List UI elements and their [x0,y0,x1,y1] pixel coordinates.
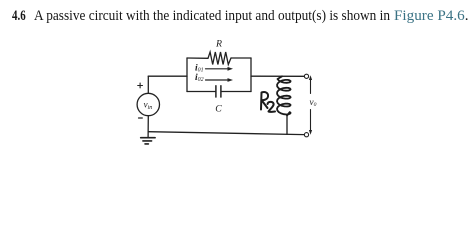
wire: top branch left lead [187,57,208,59]
wire: RC block right edge [250,58,252,92]
svg-text:vin: vin [144,99,153,111]
wire: output rail from RC block to top terminal [251,75,304,77]
voltage source Vin circle [137,93,159,115]
resistor R zigzag [208,52,231,65]
arrow i02 [206,79,230,81]
wire: R2 bottom lead [286,116,288,135]
v0 annotation arrow down [310,110,312,133]
svg-text:i02: i02 [195,73,204,83]
wire: bottom branch left lead [187,91,216,93]
node: bottom output terminal (open circle) [304,133,308,137]
wire: source bottom lead down to bottom rail and ground [147,116,149,138]
wire: RC block left edge [186,58,188,92]
polarity + of source [138,83,143,88]
wire: top rail from source to RC block left edge [148,75,187,77]
capacitor C plates [216,86,221,97]
caption text line [12,9,26,24]
label R2 hand-written [261,92,275,112]
wire: top branch right lead [231,57,251,59]
node: top output terminal (open circle) [304,74,308,78]
wire: source top lead up to top rail corner [147,76,149,93]
svg-text:R: R [215,39,222,50]
svg-text:C: C [215,104,222,115]
svg-text:v0: v0 [310,97,317,108]
ground symbol [141,138,155,144]
resistor R2 hand-drawn coil [277,76,291,134]
v0 annotation arrow up [310,78,312,94]
wire: bottom branch right lead [221,91,251,93]
polarity - of source [139,117,143,119]
wire: bottom rail from source to bottom terminal [148,132,304,135]
arrow i01 [206,68,230,70]
